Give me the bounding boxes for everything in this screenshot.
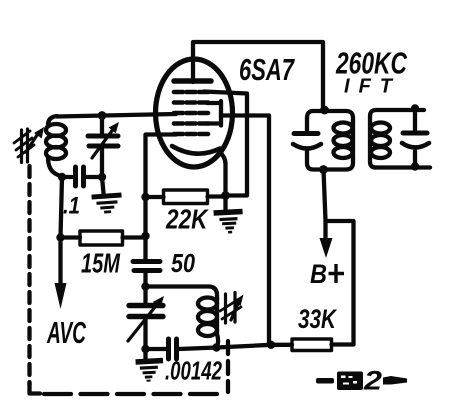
node oscillator coil bottom junction: [212, 343, 220, 351]
wire screen feed long vertical: [267, 116, 271, 345]
oscillator core adjust symbol: [220, 293, 241, 324]
resistor R1 22K: [146, 195, 164, 199]
ground antenna: [102, 177, 104, 193]
ground oscillator: [143, 349, 147, 359]
node AVC / 15M left junction: [56, 233, 64, 241]
grid G5 (dashed row 1): [174, 90, 210, 95]
wire screen feed takeoff: [221, 113, 269, 117]
AVC arrow: [58, 238, 62, 287]
ground cathode: [223, 196, 227, 210]
grid G1 (dashed row 5): [174, 132, 210, 137]
node IFT secondary bottom junction: [411, 162, 419, 170]
wire signal grid G3 to antenna tank: [57, 114, 176, 117]
dashed gang line left: [27, 166, 31, 385]
node screen / 33K junction: [267, 341, 275, 349]
grid G4 (dashed row 2): [174, 100, 210, 105]
node C2/C1 bottom junction to ground: [98, 173, 106, 181]
oscillator tank top wire: [146, 287, 218, 301]
resistor R3 33K: [292, 339, 332, 351]
svg-text:.1: .1: [63, 193, 80, 220]
capacitor C1 variable (antenna tuning): [100, 116, 104, 134]
op tube 6SA7 envelope U1: [156, 59, 233, 167]
svg-text:22K: 22K: [165, 204, 209, 235]
antenna coil L1: [48, 116, 57, 125]
grid G3 (dashed row 3): [174, 111, 210, 116]
svg-text:6SA7: 6SA7: [239, 52, 295, 87]
capacitor C2 value .1: [62, 175, 72, 179]
node IFT primary bottom junction: [319, 165, 328, 174]
IFT primary coil: [334, 123, 353, 134]
svg-text:B: B: [310, 259, 327, 289]
svg-text:2: 2: [363, 366, 382, 396]
grid G2 (dashed row 4): [174, 121, 210, 126]
IFT secondary coil: [371, 123, 390, 134]
svg-text:AVC: AVC: [46, 315, 86, 350]
bracket screen grids G2+G4 tie: [207, 101, 221, 126]
cathode arc of U1: [172, 146, 220, 154]
wire cathode down to ground junction: [218, 151, 226, 196]
capacitor IFT primary: [294, 131, 318, 136]
node oscillator tank top junction: [141, 282, 149, 290]
node G1 / 22K left junction: [141, 193, 149, 201]
svg-text:50: 50: [171, 248, 195, 278]
node 15M right / C3 top junction: [141, 232, 149, 240]
node oscillator ground junction: [141, 345, 149, 353]
oscillator coil L2: [198, 298, 217, 310]
svg-text:15M: 15M: [81, 248, 120, 279]
node IFT secondary top junction: [411, 104, 419, 112]
resistor R2 15M: [61, 235, 81, 239]
plate bar of U1: [174, 78, 211, 84]
svg-text:.00142: .00142: [165, 356, 222, 386]
antenna core adjust symbol: [14, 129, 39, 163]
dashed gang line right: [226, 341, 230, 392]
figure mark: [316, 366, 407, 396]
wire G5 to cathode ground bus: [204, 92, 247, 196]
capacitor C4 variable (oscillator tuning): [143, 287, 147, 303]
wire oscillator bottom bus: [179, 345, 292, 349]
capacitor C5 value .00142: [146, 347, 167, 351]
capacitor C3 value 50: [133, 259, 160, 264]
wire plate lead to IFT primary top: [193, 42, 323, 108]
node IFT primary top junction: [320, 106, 329, 115]
dashed gang line bottom: [44, 392, 218, 396]
node cathode ground junction: [221, 191, 230, 200]
IFT primary tank: [307, 111, 353, 121]
wire G1 exit left and down: [146, 135, 177, 260]
IFT secondary tank: [370, 110, 376, 168]
node antenna tank top / G3 junction: [98, 111, 107, 120]
capacitor IFT secondary: [413, 110, 417, 130]
node antenna coil bottom junction: [58, 173, 66, 181]
B+ arrow: [324, 170, 326, 242]
wire antenna node down to AVC/15M: [61, 177, 63, 238]
svg-text:33K: 33K: [298, 304, 338, 334]
